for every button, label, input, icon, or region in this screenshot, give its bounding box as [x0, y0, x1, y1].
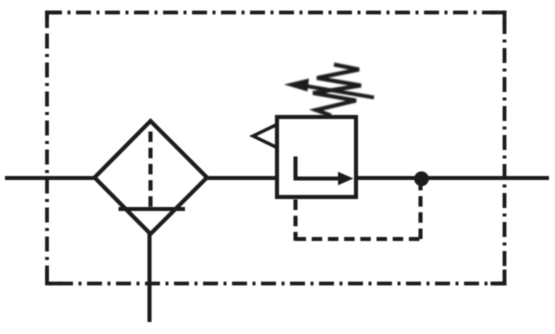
filter F1 water-trap chord	[119, 207, 186, 211]
enclosure corner top-right	[491, 13, 505, 27]
enclosure border (dash-dot)	[47, 13, 505, 284]
pilot line vertical from regulator	[293, 200, 297, 241]
filter F1 diamond body	[95, 121, 208, 234]
regulator R1 body box	[277, 117, 356, 197]
outlet pipe (right wire)	[355, 176, 549, 180]
pilot line riser to node	[418, 186, 422, 240]
wire filter-to-regulator	[206, 176, 278, 180]
filter F1 dashed center line	[148, 132, 152, 208]
regulator R1 flow arrowhead	[338, 172, 354, 185]
enclosure corner bottom-right	[491, 270, 505, 284]
regulator R1 adjusting spring	[284, 65, 374, 116]
regulator R1 internal flow path	[296, 157, 342, 179]
regulator R1 adjustment arrow shaft	[303, 86, 374, 98]
inlet pipe (left wire)	[5, 176, 96, 180]
enclosure corner top-left	[47, 13, 61, 27]
drain line	[147, 232, 151, 322]
junction node	[414, 171, 429, 186]
regulator R1 relief vent triangle	[253, 125, 277, 148]
pilot line bottom run	[296, 237, 421, 241]
regulator R1 adjustment arrowhead	[284, 79, 309, 92]
enclosure corner bottom-left	[47, 270, 61, 284]
